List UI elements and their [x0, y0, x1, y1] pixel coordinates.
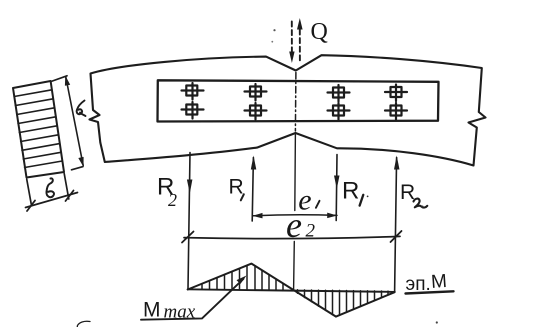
label R1 left	[229, 176, 244, 201]
label R2 right	[400, 181, 427, 208]
bolt B6	[328, 103, 350, 120]
moment diagram outline	[188, 264, 395, 317]
svg-text:2: 2	[168, 190, 177, 210]
svg-text:M: M	[143, 299, 161, 322]
svg-text:M: M	[430, 271, 447, 293]
label ep. M (moment diagram name)	[406, 271, 454, 295]
moment hatching negative	[298, 290, 389, 315]
dimension e2 line	[182, 231, 402, 243]
svg-text:R: R	[342, 177, 359, 204]
reaction line R1 left (up arrow)	[251, 156, 256, 222]
svg-text:Q: Q	[311, 19, 328, 45]
moment hatching positive	[202, 266, 283, 290]
bolt B1	[182, 83, 204, 100]
beam outline	[90, 55, 486, 165]
bolt B5	[328, 85, 350, 102]
reaction line R2 left (down arrow)	[187, 153, 193, 290]
moment diagram baseline	[188, 289, 395, 292]
label h	[77, 101, 86, 117]
svg-text:R: R	[229, 176, 244, 199]
dimension h (line, arrows, label)	[51, 76, 84, 170]
bolt B3	[245, 84, 267, 101]
bolt B7	[385, 85, 407, 102]
cross-section (hatched)	[13, 81, 64, 178]
bolt B4	[245, 103, 267, 120]
bolt B2	[182, 102, 204, 119]
reaction line R1 right (down arrow)	[334, 155, 340, 221]
center line (dash-dot through plate)	[294, 73, 297, 132]
bolt B8	[385, 103, 407, 120]
svg-text:e: e	[286, 205, 302, 245]
label e1	[298, 183, 319, 216]
svg-text:2: 2	[306, 221, 316, 242]
label e2	[286, 205, 316, 245]
splice plate	[158, 80, 439, 121]
stray ink specks	[77, 29, 438, 327]
force Q dashed arrow up	[297, 18, 303, 62]
label Mmax with leader	[141, 276, 247, 323]
reaction line R2 right (up arrow)	[394, 156, 400, 293]
label R2 left	[157, 173, 177, 210]
label b	[46, 178, 54, 197]
dimension b (extension lines, ticks, label)	[26, 174, 78, 212]
label Q	[311, 19, 328, 45]
force Q dashed arrow down	[289, 22, 294, 64]
center line (solid below beam)	[294, 133, 296, 289]
dimension e1 line	[253, 213, 338, 219]
label R1 right	[342, 177, 369, 205]
